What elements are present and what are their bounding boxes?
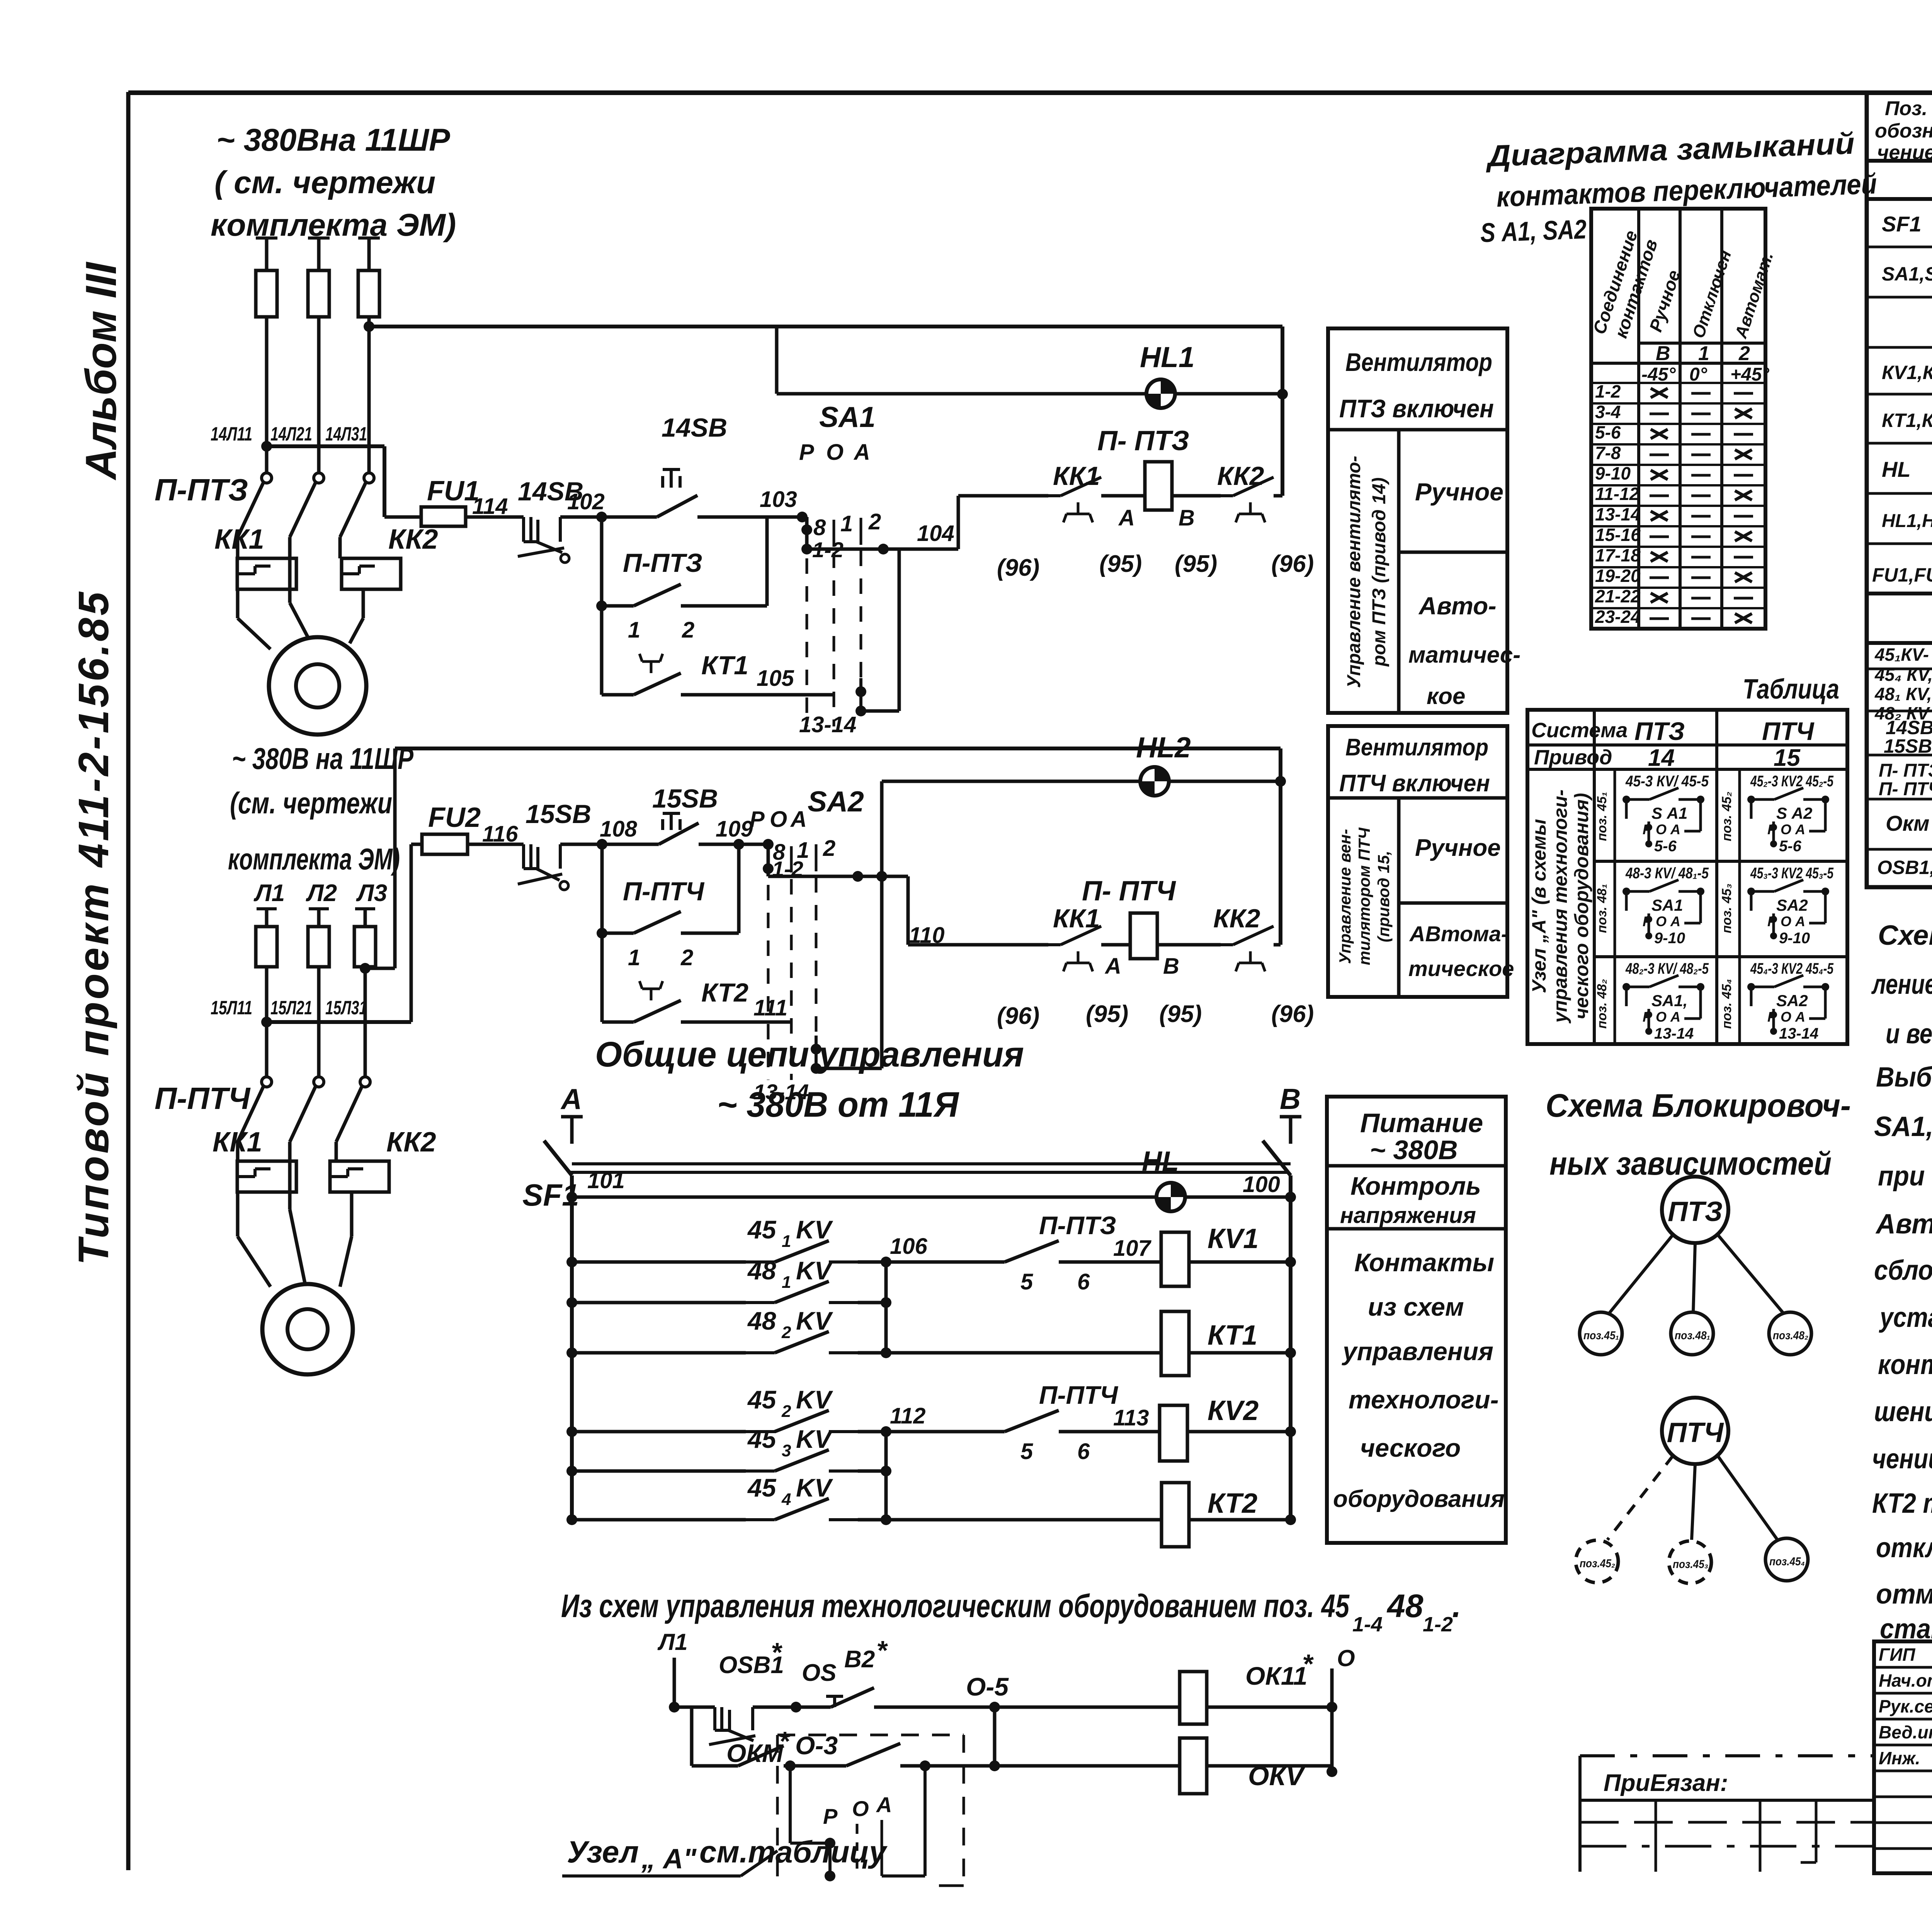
svg-text:ПТЧ: ПТЧ: [1667, 1417, 1725, 1448]
svg-text:Альбом III: Альбом III: [77, 261, 125, 481]
svg-text:Питание: Питание: [1360, 1108, 1483, 1138]
svg-text:комплекта ЭМ): комплекта ЭМ): [228, 842, 400, 876]
svg-text:~ 380В от 11Я: ~ 380В от 11Я: [717, 1085, 959, 1124]
svg-text:А: А: [876, 1793, 892, 1817]
relay coil KT2: [886, 1483, 1296, 1547]
svg-text:3: 3: [782, 1441, 791, 1460]
svg-text:1: 1: [1698, 342, 1709, 365]
tree PT3 edges: [1609, 1235, 1783, 1313]
label 113: [1113, 1405, 1149, 1430]
tree PT3 parent circle: [1662, 1177, 1728, 1243]
title: Диаграмма замыканий контактов: [1477, 126, 1879, 248]
double bus lines A-B: [569, 1164, 1291, 1172]
svg-text:А: А: [560, 1083, 582, 1115]
mode box питание/контроль: [1327, 1097, 1506, 1543]
svg-text:П- ПТЗ: П- ПТЗ: [1879, 760, 1932, 781]
relay coil KV2: [1160, 1395, 1296, 1461]
svg-text:(см. чертежи: (см. чертежи: [230, 786, 392, 820]
svg-text:В: В: [1656, 342, 1670, 365]
svg-text:13-14: 13-14: [1595, 504, 1641, 524]
motor M2 (fan PT4): [262, 1284, 353, 1374]
svg-text:Выбор режима управления осущ: Выбор режима управления осуществляется п…: [1876, 1062, 1932, 1093]
svg-text:8: 8: [813, 515, 826, 540]
svg-text:Р: Р: [799, 440, 814, 465]
svg-text:КТ1: КТ1: [701, 651, 748, 680]
mini circuit поз.45_3: [1719, 865, 1834, 947]
contact table subheader row: [1641, 342, 1769, 385]
wire 104: [807, 496, 1048, 554]
svg-text:поз. 45₂: поз. 45₂: [1719, 792, 1734, 842]
svg-text:А: А: [853, 440, 870, 465]
tree PT3 child поз.48_2: [1769, 1312, 1811, 1355]
svg-text:+45°: +45°: [1730, 364, 1769, 385]
svg-text:Авто-: Авто-: [1418, 592, 1497, 620]
relay coil ОКV: [1180, 1738, 1332, 1794]
node 106: [881, 1234, 928, 1267]
pushbutton ОSB1*: [674, 1637, 796, 1745]
pushbutton 14SB break contact: [518, 477, 602, 563]
thermal contact KK1 aux (96): [997, 461, 1145, 581]
svg-text:.: .: [1452, 1588, 1461, 1624]
svg-text:23-24: 23-24: [1595, 607, 1641, 627]
svg-text:КТ1: КТ1: [1207, 1320, 1257, 1351]
svg-text:2: 2: [1738, 342, 1750, 365]
svg-text:поз. 48₂: поз. 48₂: [1595, 979, 1609, 1029]
svg-text:15: 15: [1774, 745, 1801, 771]
node 112: [881, 1403, 925, 1437]
title: Схема блокировочных зависимостей: [1546, 1087, 1851, 1182]
contact 45_2 KV (row 112): [566, 1385, 886, 1437]
thermal contact KK1 aux (PT4): [997, 904, 1130, 1029]
svg-text:45₂-3 КV2 45₂-5: 45₂-3 КV2 45₂-5: [1750, 773, 1833, 790]
svg-text:KV: KV: [796, 1385, 833, 1414]
svg-text:~ 380В: ~ 380В: [1370, 1135, 1458, 1165]
component table outer frame: [1867, 93, 1932, 887]
fuse 14FU phase2: [308, 270, 329, 317]
svg-text:100: 100: [1243, 1172, 1280, 1197]
svg-text:Узел „А" (в схемы: Узел „А" (в схемы: [1528, 819, 1550, 993]
svg-text:Из схем управления технологи: Из схем управления технологическим обору…: [561, 1588, 1350, 1624]
svg-text:тическое: тическое: [1408, 956, 1514, 981]
svg-text:1-2: 1-2: [1423, 1613, 1453, 1636]
breaker SF1 blade right: [1263, 1141, 1291, 1197]
svg-text:чение: чение: [1877, 141, 1932, 164]
svg-text:чении всех позиций, с котор: чении всех позиций, с которыми Блокирова…: [1872, 1444, 1932, 1475]
svg-text:15ЅВ: 15ЅВ: [1884, 735, 1932, 757]
row FU1,FU2: [1872, 556, 1932, 586]
table узел А rotated left label: [1528, 789, 1592, 1024]
svg-text:45: 45: [747, 1215, 777, 1244]
svg-text:О: О: [770, 807, 787, 832]
breaker SF1 blade left: [522, 1141, 579, 1223]
svg-text:1-4: 1-4: [1352, 1613, 1383, 1636]
contactor coil П-ПТЗ: [1097, 425, 1217, 577]
svg-text:Поз.: Поз.: [1885, 97, 1927, 120]
svg-text:*: *: [779, 1726, 790, 1756]
svg-text:14Л11: 14Л11: [211, 423, 252, 445]
wire 110: [768, 871, 1048, 948]
svg-text:КV1: КV1: [1207, 1223, 1259, 1254]
svg-text:17-18: 17-18: [1595, 545, 1641, 565]
svg-text:ОКМ: ОКМ: [726, 1739, 784, 1767]
svg-text:45₃-3 КV2 45₃-5: 45₃-3 КV2 45₃-5: [1750, 865, 1833, 882]
labels Л1 Л2 Л3: [253, 880, 387, 906]
svg-text:1: 1: [628, 617, 640, 643]
svg-text:П-ПТЗ: П-ПТЗ: [623, 548, 702, 578]
svg-text:1: 1: [628, 945, 640, 970]
svg-text:матичес-: матичес-: [1408, 642, 1520, 668]
svg-text:КV1,КV2: КV1,КV2: [1882, 362, 1932, 383]
svg-text:HL2: HL2: [1136, 731, 1191, 764]
svg-text:111: 111: [753, 995, 787, 1020]
riser node112 down: [881, 1432, 891, 1525]
node О right: [1327, 1645, 1355, 1777]
svg-text:5-6: 5-6: [1654, 838, 1677, 855]
svg-text:(95): (95): [1159, 1001, 1202, 1027]
svg-text:ПТЧ включен: ПТЧ включен: [1339, 770, 1490, 797]
svg-text:(96): (96): [1271, 551, 1314, 577]
svg-text:48₂-3 КV/ 48₂-5: 48₂-3 КV/ 48₂-5: [1625, 960, 1709, 977]
phase lead-in ticks (PT4): [257, 907, 375, 910]
svg-text:114: 114: [472, 494, 508, 519]
svg-text:Контроль: Контроль: [1350, 1172, 1481, 1200]
svg-text:Узел: Узел: [567, 1835, 639, 1869]
svg-text:Автоматическое при нажатии: Автоматическое при нажатии кнопки любого…: [1875, 1209, 1932, 1240]
svg-text:*: *: [771, 1637, 782, 1667]
svg-text:(96): (96): [997, 1003, 1039, 1029]
svg-text:ром ПТЗ (привод 14): ром ПТЗ (привод 14): [1369, 478, 1389, 667]
labels 15Л11 15Л21 15Л31: [211, 997, 367, 1019]
svg-text:Управление вентилято-: Управление вентилято-: [1344, 456, 1364, 688]
svg-text:поз.48₂: поз.48₂: [1773, 1329, 1808, 1342]
signal lamp HL2: [1136, 731, 1191, 796]
wire: bus corner down to FU1 rail: [383, 446, 386, 517]
wire 114: [466, 494, 524, 519]
svg-text:45₁КV-: 45₁КV-: [1874, 645, 1929, 665]
node 103: [760, 487, 808, 522]
svg-text:14Л21: 14Л21: [270, 423, 312, 445]
svg-text:HL1: HL1: [1140, 341, 1195, 373]
svg-text:оборудования: оборудования: [1333, 1486, 1505, 1512]
note: ~380V feed label (PT3): [211, 122, 456, 243]
wire: phase link bus (PT4): [261, 1017, 411, 1027]
node 109: [716, 816, 753, 850]
svg-text:из схем: из схем: [1368, 1293, 1464, 1321]
phase wires (PT4): [267, 910, 365, 1022]
row 45KV...48KV пускатель: [1874, 643, 1932, 723]
svg-text:АВтома-: АВтома-: [1409, 922, 1508, 946]
svg-text:управления технологи-: управления технологи-: [1549, 789, 1571, 1024]
relay coil KT1: [886, 1311, 1296, 1376]
motor M1 (fan PT3): [269, 637, 366, 735]
svg-text:Рук.сект: Рук.сект: [1879, 1696, 1932, 1716]
fuse 14FU phase3: [358, 270, 379, 317]
svg-text:шение на работу станка, пока: шение на работу станка, пока вентилятор …: [1874, 1396, 1932, 1427]
svg-text:15SB: 15SB: [652, 784, 718, 813]
svg-text:тилятором ПТЧ: тилятором ПТЧ: [1355, 827, 1373, 965]
svg-text:2: 2: [868, 509, 881, 534]
svg-text:14Л31: 14Л31: [325, 423, 367, 445]
svg-text:Схема Блокировоч-: Схема Блокировоч-: [1546, 1087, 1851, 1124]
thermal element KK1 (PT4): [237, 1161, 296, 1192]
svg-text:поз.48₁: поз.48₁: [1675, 1329, 1710, 1342]
svg-text:А: А: [1118, 505, 1135, 531]
signal lamp HL1: [1140, 341, 1195, 408]
svg-text:15Л11: 15Л11: [211, 997, 252, 1019]
svg-text:9-10: 9-10: [1595, 463, 1631, 483]
привязан annex box: [1580, 1756, 1874, 1872]
svg-text:А: А: [790, 807, 807, 832]
svg-text:Управление вен-: Управление вен-: [1336, 829, 1354, 964]
svg-text:-45°: -45°: [1641, 364, 1676, 385]
svg-text:поз.45₄: поз.45₄: [1769, 1555, 1805, 1568]
svg-text:напряжения: напряжения: [1340, 1203, 1476, 1228]
relay coil ОК11*: [1180, 1649, 1332, 1724]
svg-text:13-14: 13-14: [1654, 1025, 1694, 1042]
svg-text:15Л21: 15Л21: [270, 997, 312, 1019]
svg-text:104: 104: [917, 521, 954, 546]
thermal contact KK2 aux (PT4): [1157, 904, 1314, 1027]
svg-text:KV: KV: [796, 1473, 833, 1502]
svg-text:SА1, SА2, установленными на: SА1, SА2, установленными на ящике 10Я. Р…: [1874, 1111, 1932, 1142]
tree PT4 child поз.45_3: [1669, 1541, 1711, 1583]
svg-text:ление вентилятором ПТЗ сблокир: ление вентилятором ПТЗ сблокированным со…: [1871, 969, 1932, 1000]
svg-text:14: 14: [1648, 745, 1675, 771]
svg-text:103: 103: [760, 487, 797, 512]
signature rows: [1879, 1643, 1932, 1769]
tree PT3 child поз.48_1: [1671, 1312, 1713, 1355]
svg-text:Окм: Окм: [1886, 811, 1929, 835]
svg-text:106: 106: [890, 1234, 928, 1259]
mini circuit поз.45_1: [1595, 773, 1709, 855]
row SA1,SA2: [1882, 250, 1932, 298]
margin note: Альбом III: [77, 261, 125, 481]
fuse 15FU phase2: [308, 927, 329, 967]
svg-text:П-ПТЧ: П-ПТЧ: [1039, 1381, 1118, 1409]
component table header texts: [1875, 97, 1932, 164]
svg-text:НL: НL: [1882, 457, 1911, 481]
note: ~380V feed label (PT4): [228, 742, 414, 876]
svg-text:О: О: [852, 1796, 869, 1821]
contactor main contacts П-ПТЗ: [238, 446, 374, 591]
selector switch SA1: [799, 401, 899, 737]
svg-text:см.таблицу: см.таблицу: [699, 1835, 888, 1869]
svg-text:ОЅВ1,2: ОЅВ1,2: [1877, 857, 1932, 878]
svg-text:6: 6: [1077, 1269, 1090, 1294]
svg-text:контактом которого включае: контактом которого включается вентилятор…: [1878, 1349, 1932, 1380]
svg-text:48₁ КV,: 48₁ КV,: [1874, 684, 1932, 704]
svg-text:3-4: 3-4: [1595, 402, 1621, 422]
contact 45_1 KV (row 106): [566, 1215, 886, 1267]
svg-text:Вентилятор: Вентилятор: [1345, 734, 1488, 761]
svg-text:КК1: КК1: [213, 1127, 262, 1158]
svg-text:107: 107: [1113, 1236, 1152, 1261]
wire: right riser x=3319 (PT3): [1277, 327, 1288, 496]
svg-text:Контакты: Контакты: [1354, 1248, 1494, 1277]
svg-text:при помощи постов 14SВ, 15: при помощи постов 14SВ, 15SВ, установлен…: [1878, 1161, 1932, 1192]
svg-text:Схемой предусмотрено ручн: Схемой предусмотрено ручное и автоматиче…: [1878, 920, 1932, 951]
wires into motor M2: [238, 1192, 352, 1287]
svg-text:поз. 48₁: поз. 48₁: [1595, 884, 1609, 933]
svg-text:поз.45₃: поз.45₃: [1673, 1558, 1708, 1571]
svg-text:2: 2: [781, 1402, 791, 1421]
row П-ПТЗ П-ПТЧ: [1879, 753, 1932, 801]
svg-text:В: В: [1179, 505, 1195, 531]
svg-text:обозна: обозна: [1875, 120, 1932, 142]
svg-text:и вентиляторам ПТЧ сблокиров: и вентиляторам ПТЧ сблокированным со ста…: [1886, 1019, 1932, 1049]
label KK2 (PT3): [388, 524, 438, 555]
left bus riser: [570, 1197, 574, 1520]
label KK1 (PT3): [214, 524, 264, 555]
mini circuit поз.48_2: [1595, 960, 1709, 1042]
tree PT4 child поз.45_4: [1765, 1538, 1808, 1581]
svg-text:П-ПТЧ: П-ПТЧ: [623, 877, 705, 906]
wire: HL2 lamp branch: [876, 781, 1281, 882]
svg-text:HL: HL: [1142, 1146, 1179, 1177]
svg-text:48: 48: [747, 1306, 776, 1335]
svg-text:101: 101: [587, 1168, 625, 1193]
svg-text:ПриЕязан:: ПриЕязан:: [1604, 1770, 1728, 1796]
contact 48_1 KV: [566, 1256, 891, 1308]
node 108: [597, 816, 638, 850]
svg-text:SА1: SА1: [1651, 896, 1683, 914]
svg-text:П-ПТЧ: П-ПТЧ: [155, 1081, 251, 1116]
svg-text:поз. 45₃: поз. 45₃: [1719, 884, 1734, 934]
svg-text:КК2: КК2: [386, 1127, 436, 1158]
contactor coil П-ПТЧ: [1082, 876, 1202, 1027]
svg-text:FU1: FU1: [427, 476, 480, 507]
contact П-ПТЗ 5-6: [886, 1211, 1161, 1294]
svg-text:КТ2: КТ2: [1207, 1488, 1257, 1519]
phase wires L1 L2 L3 (PT3): [267, 240, 369, 446]
row HL: [1882, 446, 1932, 494]
svg-text:102: 102: [567, 489, 605, 514]
svg-text:9-10: 9-10: [1779, 930, 1810, 947]
holding contact П-ПТЧ 1-2: [597, 844, 739, 1022]
svg-text:О: О: [1337, 1645, 1355, 1671]
row KV1,KV2: [1882, 350, 1932, 395]
tree PT4 child поз.45_2: [1576, 1540, 1618, 1583]
tree PT3 child поз.45_1: [1580, 1312, 1622, 1355]
title: Общие цепи управления: [595, 1035, 1024, 1124]
signal lamp HL: [1142, 1146, 1185, 1211]
sheet frame left border: [126, 92, 131, 1870]
row 14SB 15SB: [1884, 715, 1932, 758]
phase lead-in ticks (PT3): [256, 236, 380, 240]
wire: bus corner up to FU2 rail: [410, 844, 413, 1022]
svg-text:1: 1: [840, 511, 853, 536]
svg-text:ОК11: ОК11: [1245, 1662, 1307, 1690]
svg-text:48: 48: [747, 1256, 776, 1285]
wire: phase link bus (PT3): [261, 441, 384, 452]
svg-text:1-2: 1-2: [1595, 381, 1621, 401]
svg-text:5-6: 5-6: [1779, 838, 1802, 855]
svg-text:КК2: КК2: [388, 524, 438, 555]
svg-text:9-10: 9-10: [1654, 930, 1685, 947]
svg-text:2: 2: [823, 836, 835, 861]
svg-text:КК2: КК2: [1213, 904, 1260, 933]
title: Из схем управления технологическим оборудованием: [561, 1588, 1461, 1636]
svg-text:113: 113: [1113, 1405, 1149, 1430]
wire: riser to PT4 top rail: [393, 748, 397, 968]
row KT1,KT2: [1882, 397, 1932, 444]
wire: HL1 lamp branch: [777, 327, 1282, 394]
fuse 14FU phase1: [256, 270, 277, 317]
svg-text:Л1: Л1: [657, 1629, 688, 1655]
svg-text:7-8: 7-8: [1595, 443, 1621, 463]
wire: right riser x=3314 (PT4): [1275, 748, 1286, 945]
svg-text:S А1, SА2: S А1, SА2: [1480, 214, 1587, 248]
svg-text:Л3: Л3: [356, 880, 387, 906]
table: contact closing diagram frame: [1591, 209, 1765, 629]
wire 116: [468, 821, 524, 847]
svg-text:15SB: 15SB: [526, 799, 591, 829]
svg-text:поз. 45₄: поз. 45₄: [1719, 979, 1734, 1029]
svg-text:45: 45: [747, 1385, 777, 1414]
svg-text:П- ПТЧ: П- ПТЧ: [1082, 876, 1177, 906]
svg-text:45₄ КV,: 45₄ КV,: [1874, 665, 1932, 685]
svg-text:SA1: SA1: [819, 401, 876, 433]
label KK2 (PT4): [386, 1127, 436, 1158]
svg-text:ОS: ОS: [802, 1660, 837, 1686]
svg-text:отмечена аппаратура, поступа: отмечена аппаратура, поступающая комплек…: [1876, 1579, 1932, 1610]
rotated headers of contact table: [1589, 228, 1777, 341]
svg-text:ческого: ческого: [1360, 1434, 1461, 1462]
wire: top control rail PT4 (1937): [395, 747, 1281, 750]
svg-text:2: 2: [682, 617, 694, 643]
svg-text:Ручное: Ручное: [1415, 835, 1501, 861]
svg-text:ГИП: ГИП: [1879, 1645, 1915, 1665]
svg-text:5-6: 5-6: [1595, 422, 1621, 442]
svg-text:ческого оборудования): ческого оборудования): [1571, 793, 1592, 1019]
svg-text:KV: KV: [796, 1256, 833, 1285]
wires into motor M1: [238, 589, 363, 649]
mode box PT3: [1328, 328, 1520, 713]
mode box PT4: [1328, 726, 1514, 997]
svg-text:КV2: КV2: [1207, 1395, 1259, 1426]
svg-text:Нач.отд.: Нач.отд.: [1879, 1670, 1932, 1690]
svg-text:SA2: SA2: [808, 785, 864, 818]
svg-text:48-3 КV/ 48₁-5: 48-3 КV/ 48₁-5: [1625, 865, 1709, 882]
riser node106 down: [881, 1262, 891, 1358]
thermal contact KK2 aux (96): [1172, 461, 1314, 577]
table узел А frame: [1527, 710, 1847, 1044]
svg-text:В: В: [1163, 954, 1179, 979]
thermal element KK2 (PT3): [342, 558, 401, 589]
riser О-5 to lower rail: [989, 1707, 1180, 1771]
svg-text:поз.45₂: поз.45₂: [1580, 1557, 1615, 1570]
svg-text:Вентилятор: Вентилятор: [1345, 348, 1492, 376]
svg-text:Р: Р: [750, 807, 765, 832]
svg-text:1: 1: [782, 1273, 791, 1292]
labels 14Л11 14Л21 14Л31: [211, 423, 367, 445]
svg-text:(95): (95): [1175, 551, 1217, 577]
svg-text:поз. 45₁: поз. 45₁: [1595, 792, 1609, 841]
signature table frame: [1874, 1641, 1932, 1873]
svg-text:108: 108: [600, 816, 638, 842]
label П-ПТЗ: [155, 473, 248, 507]
svg-text:ЅА1,ЅА2: ЅА1,ЅА2: [1882, 263, 1932, 285]
svg-text:0°: 0°: [1689, 364, 1708, 385]
svg-text:FU2: FU2: [428, 802, 481, 833]
svg-text:П- ПТЗ: П- ПТЗ: [1097, 425, 1189, 456]
svg-text:Ручное: Ручное: [1415, 478, 1503, 506]
component table row lines: [1867, 161, 1932, 849]
svg-text:S А1: S А1: [1651, 804, 1687, 822]
svg-text:15Л31: 15Л31: [325, 997, 367, 1019]
svg-text:5: 5: [1020, 1269, 1033, 1294]
row ОSB1,2: [1877, 851, 1932, 884]
